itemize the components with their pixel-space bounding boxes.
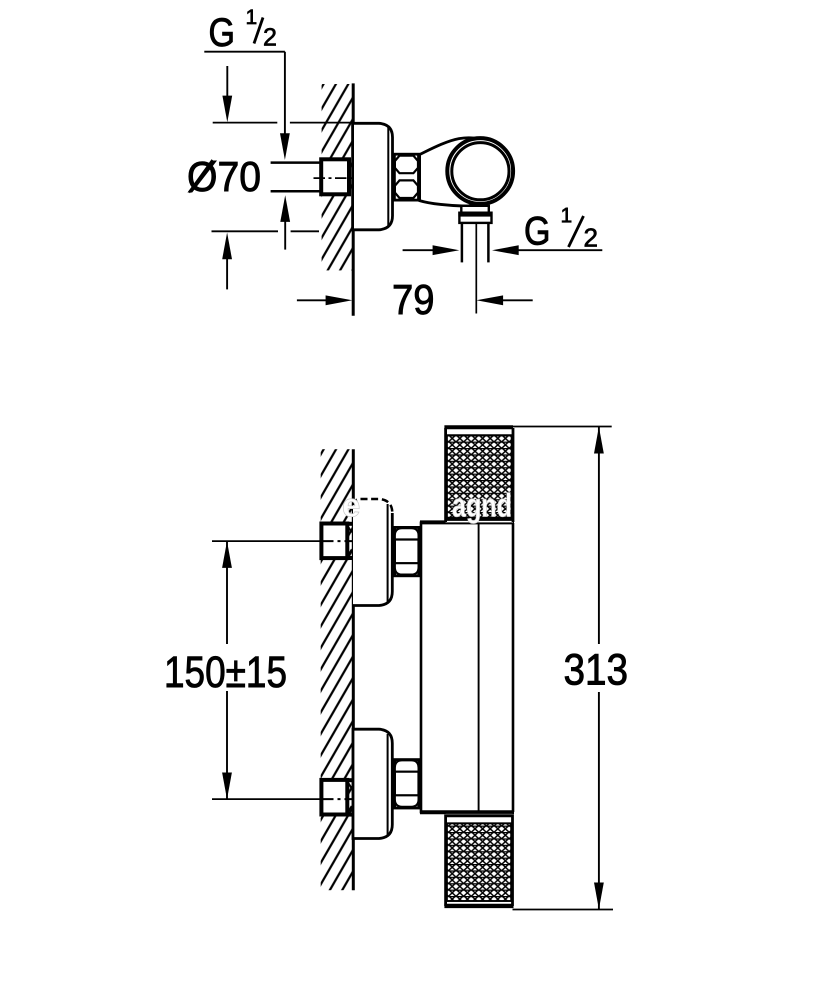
upper escutcheon [353, 499, 392, 606]
svg-text:2: 2 [263, 24, 277, 52]
svg-text:1: 1 [245, 6, 257, 29]
svg-text:79: 79 [392, 276, 435, 323]
dim line down from shelf [284, 52, 286, 140]
valve body [421, 522, 513, 812]
union ball seat arc [347, 164, 350, 192]
svg-text:G: G [208, 11, 235, 55]
wall face line [352, 83, 355, 315]
dim shelf line under G1/2 [204, 51, 285, 53]
wall face line [352, 449, 355, 890]
svg-text:150±15: 150±15 [164, 648, 287, 697]
dim 313 [513, 426, 612, 428]
dim text G 1/2 right [524, 204, 598, 253]
up arrow flange bottom [222, 233, 232, 260]
centre line upper [212, 540, 320, 542]
svg-text:Ø70: Ø70 [187, 153, 261, 200]
hex connection nut (side) [394, 154, 418, 200]
outlet collar [461, 206, 489, 213]
bottom knurled handle [446, 814, 513, 908]
svg-text:e: e [342, 486, 360, 523]
extension line flange bottom [212, 230, 279, 232]
top knurled handle [446, 426, 513, 522]
dim text G 1/2 top left [208, 6, 276, 55]
pipe centre line [475, 224, 477, 314]
arrow to flange top [226, 66, 228, 100]
lower square union nut [348, 778, 353, 782]
wall hatching (top view) [322, 84, 354, 270]
dim G1/2 right arrows [403, 249, 437, 251]
svg-text:agnd: agnd [452, 486, 512, 523]
escutcheon flange (side) [353, 123, 393, 230]
svg-text:313: 313 [563, 646, 628, 695]
valve body cone [420, 138, 481, 206]
watermark [342, 486, 512, 523]
up arrow nut bottom [280, 195, 290, 222]
upper hex nut [395, 527, 419, 575]
centre line lower [212, 798, 320, 800]
dim 79 arrows [297, 299, 330, 301]
extension line flange top [213, 122, 278, 124]
square union nut on wall [321, 159, 349, 194]
lower hex nut [395, 760, 419, 808]
escutcheon face line [387, 127, 389, 226]
upper square union nut [348, 522, 353, 526]
outlet union nut [459, 213, 491, 223]
svg-text:G: G [524, 210, 551, 254]
svg-text:2: 2 [583, 223, 597, 253]
handle inner circle [452, 143, 509, 200]
lower escutcheon [353, 729, 392, 838]
supply nipple through wall [271, 161, 322, 164]
centre line dash-dot [314, 177, 353, 179]
wall hatching (front view) [321, 449, 354, 890]
handle outer circle [447, 138, 513, 204]
dim 150±15 [222, 541, 232, 568]
outlet pipe [461, 223, 464, 263]
svg-text:1: 1 [560, 204, 572, 227]
